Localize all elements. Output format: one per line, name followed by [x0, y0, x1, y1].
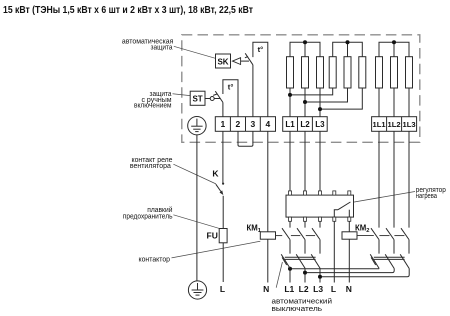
svg-text:контактор: контактор — [139, 257, 171, 264]
wire: jumper terminal 2 to terminal 3 — [238, 131, 253, 146]
pointer line: контактор -> KM1 — [172, 241, 261, 258]
regulator pins — [289, 191, 351, 221]
thermostat bulb SK (t° box over terminals 3-4) — [253, 42, 268, 116]
pointer line: автоматический выключатель -> breaker — [276, 262, 282, 288]
KM2 linkage — [357, 235, 404, 237]
node: L3 heater tap — [318, 107, 322, 111]
junction dots — [288, 40, 396, 278]
pointer line: регулятор нагрева -> regulator box — [354, 192, 416, 203]
wire: heater group A star bar — [290, 42, 320, 56]
svg-text:автоматический: автоматический — [272, 297, 333, 305]
wire: heater C1 bottom to 1L1 — [378, 88, 380, 117]
svg-text:K: K — [212, 169, 219, 179]
wire: KM2 coil down to N — [348, 239, 350, 282]
bottom annotation — [272, 297, 333, 313]
wire: KM1 contact 3 to breaker pole 3 — [319, 240, 321, 254]
svg-text:вентилятора: вентилятора — [130, 163, 171, 170]
wire: terminal 4 down to KM1 coil — [267, 131, 269, 232]
wire: 1L1 terminal down to KM2 contact 1 — [378, 131, 380, 227]
svg-text:4: 4 — [266, 119, 271, 129]
svg-text:2: 2 — [236, 119, 241, 129]
terminal labels L1 L2 L3 — [285, 120, 325, 129]
node: L1 heater tap — [288, 93, 292, 97]
terminal labels 1 2 3 4 — [221, 119, 271, 129]
terminal labels 1L1 1L2 1L3 — [373, 120, 416, 129]
wire: breaker pole 2 to L2 out — [304, 269, 306, 283]
arrow to SK box — [233, 58, 241, 65]
circuit breaker QF1 (3-pole) — [281, 254, 320, 268]
wire: node L2a to heater B2 — [305, 88, 348, 102]
wire: node L1a to heater B1 — [290, 88, 333, 95]
ground PE upper — [188, 117, 206, 135]
wire: 1L2 terminal down to KM2 contact 2 — [393, 131, 395, 227]
heater block dashed enclosure — [182, 35, 420, 143]
wire: heater C2 top stub — [393, 42, 395, 56]
svg-text:N: N — [263, 284, 269, 294]
wire: heater A3 bottom to L3 terminal — [319, 88, 321, 117]
resistor heater C3 — [406, 57, 413, 88]
terminal strip 1L1 1L2 1L3 — [372, 117, 417, 132]
contactor coil KM1 — [260, 232, 275, 239]
terminal strip L1 L2 L3 — [283, 117, 328, 132]
thermostat bulb ST (t° box over terminals 1-2) — [223, 80, 238, 117]
wire: KM2 contact 2 to breaker2 pole 2 — [393, 240, 395, 254]
wire: terminal 1 down to K contact — [222, 131, 224, 183]
svg-text:L: L — [220, 284, 225, 294]
KM1 linkage — [276, 235, 316, 237]
circuit breaker QF2 (3-pole) — [370, 254, 409, 268]
terminal strip 1 2 3 4 — [215, 117, 275, 132]
svg-text:выключатель: выключатель — [272, 306, 323, 313]
pointer line: контакт реле вентилятора -> K — [173, 164, 216, 184]
node: L1 output tap — [288, 267, 292, 271]
wire: 1L3 terminal down to KM2 contact 3 — [408, 131, 410, 227]
svg-text:L3: L3 — [315, 120, 325, 129]
svg-text:предохранитель: предохранитель — [123, 214, 173, 221]
ST thermal switch arm — [214, 98, 220, 100]
resistor heater C1 — [376, 57, 383, 88]
resistor heater B3 — [359, 57, 366, 88]
svg-text:L2: L2 — [299, 284, 309, 294]
wire: K contact to FU fuse — [222, 196, 224, 229]
wire: heater C3 bottom to 1L3 — [408, 88, 410, 117]
heat regulator U1 — [286, 195, 354, 217]
wire: regulator pin 1 to KM1 contact 1 — [289, 221, 291, 227]
wire: breaker pole 3 to L3 out — [319, 269, 321, 283]
svg-text:L: L — [331, 284, 336, 294]
resistor heater C2 — [391, 57, 398, 88]
svg-text:1L2: 1L2 — [388, 120, 401, 129]
svg-text:SK: SK — [217, 57, 228, 66]
svg-text:FU: FU — [207, 231, 218, 241]
svg-text:N: N — [346, 284, 352, 294]
regulator internal switch — [334, 202, 350, 217]
svg-text:L1: L1 — [285, 120, 295, 129]
resistor heater B2 — [344, 57, 351, 88]
svg-text:t°: t° — [228, 83, 234, 92]
svg-text:включением: включением — [134, 103, 172, 110]
resistor heater B1 — [329, 57, 336, 88]
wire: KM1 coil down to N — [267, 239, 269, 282]
svg-text:t°: t° — [258, 45, 264, 54]
box SK (circuit breaker protection) — [216, 54, 231, 68]
pointer line: защита с ручным включением -> ST — [173, 94, 191, 96]
resistor heater A2 — [302, 57, 309, 88]
wire: breaker pole 1 to L1 out — [289, 269, 291, 283]
wire: breaker2 pole1 elbow to L1 node — [290, 268, 379, 270]
contact K (fan relay contact) — [222, 183, 224, 185]
svg-text:1L1: 1L1 — [373, 120, 387, 129]
wire: KM1 contact 1 to breaker pole 1 — [289, 240, 291, 254]
svg-text:защита: защита — [151, 44, 173, 51]
node: star point group C — [392, 40, 396, 44]
wire: heater A2 bottom to L2 terminal — [304, 88, 306, 117]
bottom terminal labels — [220, 284, 352, 294]
svg-text:3: 3 — [251, 119, 256, 129]
ST reset button circle — [205, 98, 210, 100]
node: L2 output tap — [303, 271, 307, 275]
svg-text:ST: ST — [192, 94, 202, 103]
wire: L2 terminal down to regulator pin 2 — [304, 131, 306, 191]
box ST (manual reset protection) — [190, 91, 205, 105]
svg-text:15 кВт (ТЭНы 1,5 кВт х 6 шт и: 15 кВт (ТЭНы 1,5 кВт х 6 шт и 2 кВт х 3 … — [3, 5, 253, 16]
fuse FU — [219, 229, 227, 243]
svg-text:L3: L3 — [313, 284, 323, 294]
SK thermal switch contact — [241, 53, 253, 65]
svg-text:1L3: 1L3 — [403, 120, 416, 129]
resistor heater A3 — [317, 57, 324, 88]
wire: ground bus from PE circle down to lower PE circle — [196, 135, 198, 281]
node: L3 output tap — [318, 275, 322, 279]
heater elements (resistors) — [287, 57, 413, 88]
svg-text:L2: L2 — [300, 120, 310, 129]
KM2 contact arms — [371, 228, 409, 239]
pointer line: плавкий предохранитель -> FU — [173, 215, 219, 229]
right annotation — [416, 187, 446, 200]
wire: regulator pin 5 down to KM2 coil — [348, 221, 350, 232]
svg-text:нагрева: нагрева — [416, 193, 437, 200]
wire: heater B2 top stub — [347, 42, 349, 56]
ground PE lower — [188, 281, 206, 299]
wire: regulator pin 2 to KM1 contact 2 — [304, 221, 306, 227]
wire: regulator pin 4 down to L — [333, 221, 335, 282]
wire: FU fuse down to L — [222, 243, 224, 282]
svg-text:L1: L1 — [284, 284, 294, 294]
wire: L3 terminal down to regulator pin 3 — [319, 131, 321, 191]
wire: heater A2 top stub — [304, 42, 306, 56]
node: star point group A — [303, 40, 307, 44]
wire: heater group C star bar — [379, 42, 409, 56]
wire: heater C2 bottom to 1L2 — [393, 88, 395, 117]
node: L2 heater tap — [303, 100, 307, 104]
pointer line: автоматическая защита -> SK — [174, 46, 216, 58]
svg-text:1: 1 — [221, 119, 226, 129]
wire: regulator pin 3 to KM1 contact 3 — [319, 221, 321, 227]
KM1 contact arms — [282, 228, 320, 239]
node: star point group B — [346, 40, 350, 44]
wire: heater group B star bar — [333, 42, 363, 56]
wire: KM2 contact 1 to breaker2 pole 1 — [378, 240, 380, 254]
wire: KM2 contact 3 to breaker2 pole 3 — [408, 240, 410, 254]
wire: node L3a to heater B3 — [320, 88, 362, 109]
wire: breaker2 pole2 elbow to L2 node — [305, 269, 394, 273]
wire: L1 terminal down to regulator pin 1 — [289, 131, 291, 191]
resistor heater A1 — [287, 57, 294, 88]
left annotation texts — [122, 39, 174, 264]
wire: heater A1 bottom to L1 terminal — [289, 88, 291, 117]
contactor coil KM2 — [342, 232, 357, 239]
wire: KM1 contact 2 to breaker pole 2 — [304, 240, 306, 254]
wire: breaker2 pole3 elbow to L3 node — [320, 269, 409, 277]
